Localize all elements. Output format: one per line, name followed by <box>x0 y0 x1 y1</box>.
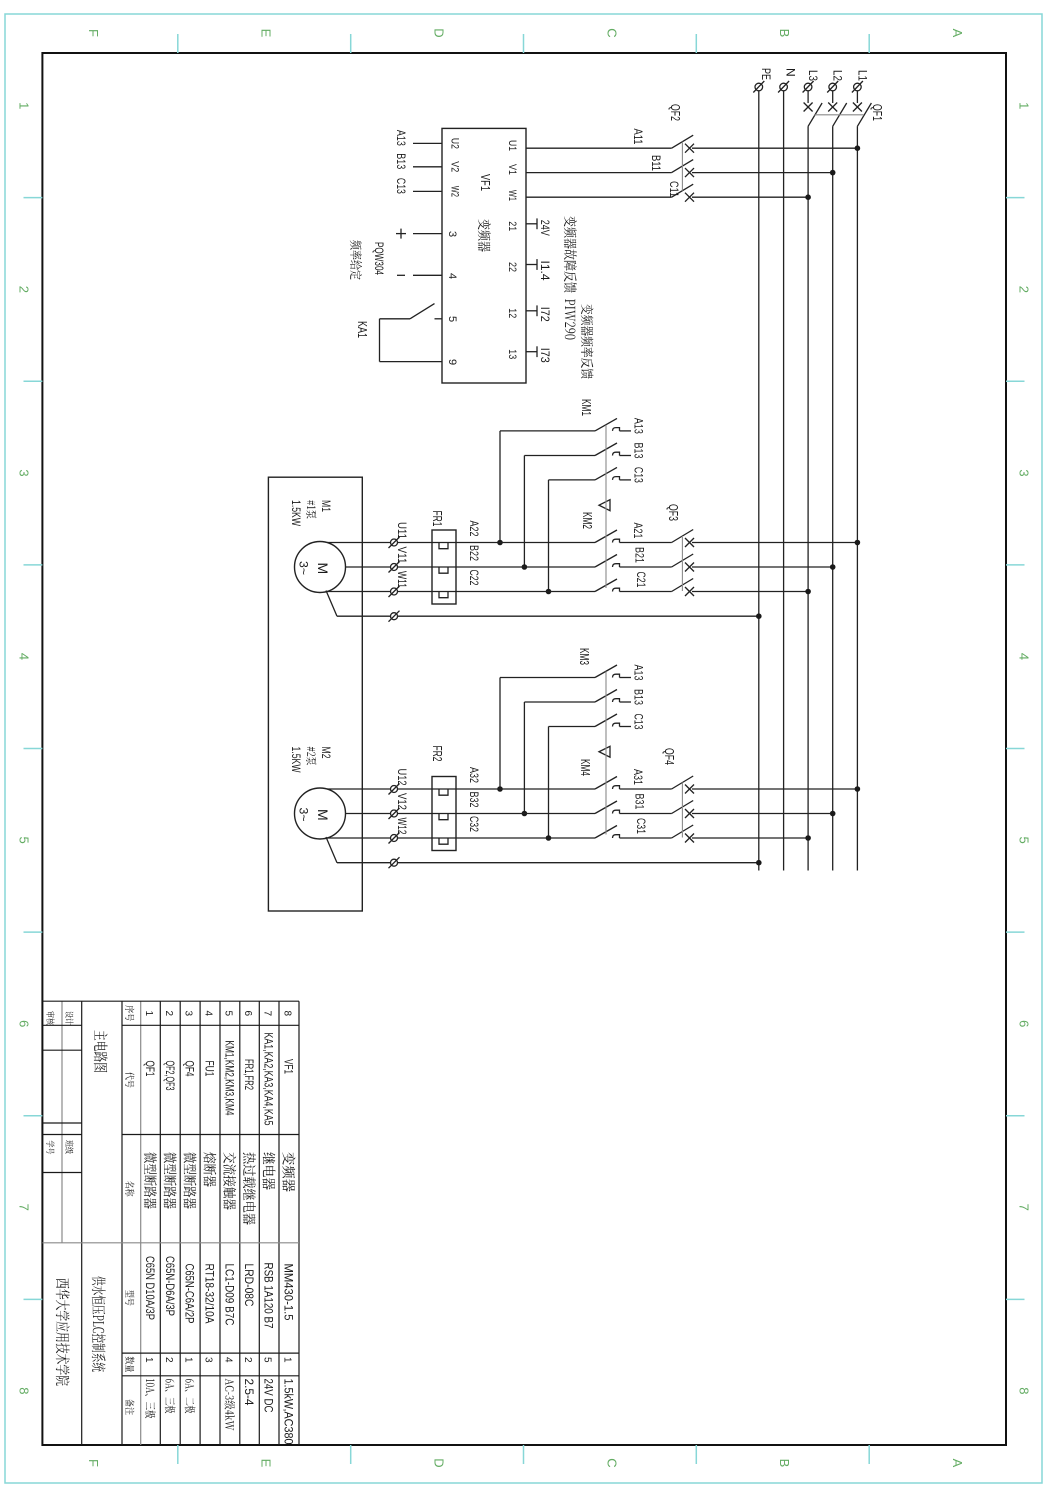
svg-text:U1: U1 <box>506 140 518 151</box>
svg-text:1: 1 <box>17 102 32 109</box>
svg-text:A13: A13 <box>394 130 408 146</box>
svg-text:1.5KW: 1.5KW <box>289 500 301 526</box>
svg-text:QF2,QF3: QF2,QF3 <box>163 1061 175 1091</box>
svg-text:B: B <box>777 1459 792 1468</box>
svg-text:KM1,KM2,KM3,KM4: KM1,KM2,KM3,KM4 <box>222 1041 234 1116</box>
svg-text:C: C <box>604 1458 619 1467</box>
svg-text:QF1: QF1 <box>870 104 884 121</box>
svg-text:22: 22 <box>506 262 518 272</box>
svg-text:V11: V11 <box>395 547 409 564</box>
svg-text:4: 4 <box>446 273 458 279</box>
svg-text:8: 8 <box>17 1387 32 1394</box>
svg-text:KM1: KM1 <box>579 399 593 416</box>
svg-text:4: 4 <box>1017 653 1032 660</box>
svg-text:6: 6 <box>242 1011 253 1017</box>
svg-text:5: 5 <box>1017 837 1032 844</box>
svg-text:VF1: VF1 <box>282 1059 294 1074</box>
svg-text:KM4: KM4 <box>578 759 592 776</box>
svg-text:M: M <box>315 809 331 821</box>
svg-text:C13: C13 <box>394 178 408 194</box>
svg-text:2: 2 <box>17 286 32 293</box>
svg-text:QF2: QF2 <box>668 104 682 121</box>
svg-text:7: 7 <box>262 1011 273 1017</box>
svg-text:C65N-C6A/2P: C65N-C6A/2P <box>183 1264 197 1324</box>
svg-text:B11: B11 <box>649 155 663 171</box>
svg-text:A13: A13 <box>632 665 646 681</box>
svg-text:D: D <box>431 1458 446 1467</box>
svg-text:FR2: FR2 <box>430 746 444 762</box>
svg-text:2: 2 <box>163 1357 174 1363</box>
svg-text:C21: C21 <box>634 572 648 588</box>
svg-text:A11: A11 <box>631 129 645 145</box>
svg-text:U11: U11 <box>395 522 409 539</box>
svg-text:3: 3 <box>1017 469 1032 476</box>
svg-text:6: 6 <box>17 1020 32 1027</box>
svg-text:4: 4 <box>222 1357 233 1363</box>
svg-text:F: F <box>86 1459 101 1467</box>
svg-text:QF4: QF4 <box>662 748 676 765</box>
svg-text:W2: W2 <box>449 186 461 197</box>
svg-text:9: 9 <box>446 359 458 365</box>
svg-text:4: 4 <box>203 1011 214 1017</box>
svg-text:FR1,FR2: FR1,FR2 <box>242 1059 254 1090</box>
svg-text:B13: B13 <box>632 443 646 459</box>
svg-text:1: 1 <box>143 1011 154 1017</box>
svg-text:W12: W12 <box>395 818 409 835</box>
svg-text:2.5-4: 2.5-4 <box>242 1379 254 1407</box>
svg-text:5: 5 <box>17 837 32 844</box>
svg-text:M1: M1 <box>319 500 331 512</box>
svg-text:B21: B21 <box>633 547 647 563</box>
svg-text:I1.4: I1.4 <box>538 261 552 281</box>
svg-text:VF1: VF1 <box>478 174 492 191</box>
svg-text:W1: W1 <box>506 190 518 201</box>
svg-text:PE: PE <box>759 68 773 80</box>
svg-text:B32: B32 <box>467 792 481 808</box>
svg-text:B22: B22 <box>467 545 481 561</box>
svg-text:RSB 1A120 B7: RSB 1A120 B7 <box>262 1263 276 1329</box>
svg-text:LRD-08C: LRD-08C <box>242 1264 256 1307</box>
svg-text:5: 5 <box>446 316 458 322</box>
svg-text:24V DC: 24V DC <box>262 1379 274 1413</box>
svg-text:21: 21 <box>506 221 518 231</box>
svg-text:FR1: FR1 <box>430 511 444 527</box>
svg-text:C65N D10A/3P: C65N D10A/3P <box>143 1256 157 1320</box>
svg-text:6: 6 <box>1017 1020 1032 1027</box>
svg-text:C: C <box>604 28 619 37</box>
svg-text:W11: W11 <box>395 571 409 588</box>
svg-text:5: 5 <box>222 1011 233 1017</box>
svg-text:A21: A21 <box>631 523 645 539</box>
svg-text:L3: L3 <box>806 70 820 81</box>
svg-text:M2: M2 <box>319 747 331 759</box>
svg-text:E: E <box>259 1459 274 1468</box>
svg-text:2: 2 <box>242 1357 253 1363</box>
svg-text:KA1: KA1 <box>355 321 369 338</box>
svg-text:B13: B13 <box>394 153 408 169</box>
svg-text:B13: B13 <box>632 689 646 705</box>
svg-text:3~: 3~ <box>297 808 311 822</box>
svg-text:V1: V1 <box>506 164 518 175</box>
svg-text:1.5kW,AC380: 1.5kW,AC380 <box>282 1379 294 1445</box>
svg-text:5: 5 <box>262 1357 273 1363</box>
svg-text:3: 3 <box>17 469 32 476</box>
svg-text:QF4: QF4 <box>183 1061 195 1077</box>
svg-text:I72: I72 <box>538 307 552 322</box>
svg-text:E: E <box>259 29 274 38</box>
svg-text:7: 7 <box>1017 1204 1032 1211</box>
svg-text:RT18-32/10A: RT18-32/10A <box>203 1264 217 1324</box>
svg-text:U12: U12 <box>395 769 409 786</box>
svg-text:4: 4 <box>17 653 32 660</box>
svg-text:PQW304: PQW304 <box>372 242 386 275</box>
svg-text:13: 13 <box>506 349 518 359</box>
svg-text:A: A <box>950 29 965 38</box>
svg-text:12: 12 <box>506 308 518 318</box>
svg-text:L2: L2 <box>831 70 845 81</box>
svg-text:FU1: FU1 <box>203 1061 215 1077</box>
svg-text:A32: A32 <box>467 767 481 783</box>
svg-text:2: 2 <box>1017 286 1032 293</box>
svg-text:V2: V2 <box>449 161 461 172</box>
svg-text:KA1,KA2,KA3,KA4,KA5: KA1,KA2,KA3,KA4,KA5 <box>262 1033 274 1126</box>
svg-text:QF1: QF1 <box>143 1061 155 1077</box>
svg-text:F: F <box>86 29 101 37</box>
svg-text:U2: U2 <box>449 138 461 149</box>
svg-text:7: 7 <box>17 1204 32 1211</box>
svg-text:24V: 24V <box>538 220 552 236</box>
svg-text:1.5KW: 1.5KW <box>289 747 301 773</box>
svg-text:C31: C31 <box>634 818 648 834</box>
svg-text:3: 3 <box>446 231 458 237</box>
svg-text:8: 8 <box>1017 1387 1032 1394</box>
svg-text:MM430-1.5: MM430-1.5 <box>282 1264 296 1321</box>
svg-text:N: N <box>784 68 798 77</box>
svg-text:I73: I73 <box>538 348 552 363</box>
svg-text:L1: L1 <box>855 70 869 81</box>
svg-text:1: 1 <box>183 1357 194 1363</box>
svg-text:QF3: QF3 <box>666 504 680 521</box>
svg-text:V12: V12 <box>395 793 409 810</box>
svg-text:1: 1 <box>282 1357 293 1363</box>
svg-text:C32: C32 <box>467 816 481 832</box>
svg-text:3~: 3~ <box>297 561 311 575</box>
svg-text:3: 3 <box>203 1357 214 1363</box>
svg-text:C65N-D6A/3P: C65N-D6A/3P <box>163 1256 177 1316</box>
svg-text:C11: C11 <box>667 181 681 197</box>
svg-text:C13: C13 <box>632 714 646 730</box>
svg-text:A: A <box>950 1459 965 1468</box>
svg-text:8: 8 <box>282 1011 293 1017</box>
svg-text:A22: A22 <box>467 521 481 537</box>
svg-text:KM3: KM3 <box>577 648 591 665</box>
svg-text:B: B <box>777 29 792 38</box>
svg-text:C13: C13 <box>632 467 646 483</box>
svg-text:KM2: KM2 <box>580 512 594 529</box>
svg-text:C22: C22 <box>467 570 481 586</box>
svg-text:M: M <box>315 563 331 575</box>
svg-text:B31: B31 <box>633 794 647 810</box>
svg-text:1: 1 <box>143 1357 154 1363</box>
svg-text:A13: A13 <box>632 418 646 434</box>
svg-text:1: 1 <box>1017 102 1032 109</box>
svg-text:2: 2 <box>163 1011 174 1017</box>
svg-text:D: D <box>431 28 446 37</box>
svg-text:A31: A31 <box>631 769 645 785</box>
svg-text:3: 3 <box>183 1011 194 1017</box>
svg-text:LC1-D09 B7C: LC1-D09 B7C <box>222 1264 236 1326</box>
